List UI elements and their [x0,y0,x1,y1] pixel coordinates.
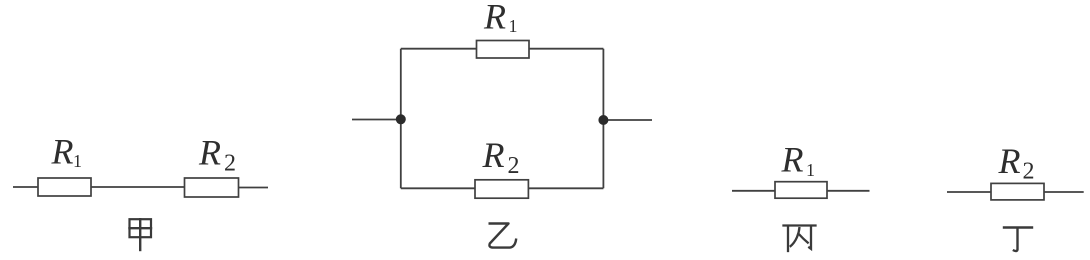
wire left vertical [400,49,402,189]
wire right lead [827,190,870,192]
wire top branch left [401,48,477,50]
wire left lead [947,191,991,193]
svg-text:2: 2 [508,153,520,179]
wire left lead [732,190,775,192]
resistor R1 [477,41,530,59]
svg-text:R: R [483,0,506,36]
svg-text:1: 1 [73,151,82,171]
label 丁 [1004,228,1032,252]
svg-text:R: R [198,133,221,173]
wire input lead [352,119,401,121]
node right junction [598,115,608,125]
svg-text:1: 1 [509,16,518,36]
wire middle [91,186,185,188]
node left junction [396,114,406,124]
resistor R2 [475,180,528,198]
svg-text:R: R [482,135,505,175]
wire right lead [1044,191,1084,193]
svg-text:2: 2 [1023,158,1035,184]
wire top branch right [529,48,603,50]
svg-text:R: R [781,140,804,180]
wire bottom branch left [401,187,475,189]
label 甲 [130,219,152,250]
label 乙 [489,224,517,248]
wire output lead [603,119,652,121]
svg-text:R: R [998,141,1021,181]
wire bottom branch right [528,187,603,189]
svg-text:R: R [51,132,74,172]
resistor R2 [185,178,239,197]
wire right lead [239,187,269,189]
resistor R1 [775,182,827,199]
wire left lead [13,186,38,188]
svg-text:1: 1 [806,160,815,180]
wire right vertical [602,49,604,189]
resistor R2 [991,183,1044,200]
svg-text:2: 2 [224,151,236,177]
label 丙 [784,226,816,252]
resistor R1 [38,178,91,196]
